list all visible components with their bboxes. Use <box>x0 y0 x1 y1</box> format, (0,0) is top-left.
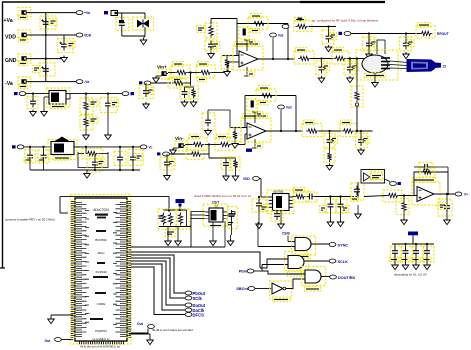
resistor R5 <box>196 62 215 82</box>
wire eeprom right <box>227 212 235 216</box>
resistor R9 feedback <box>248 14 268 33</box>
wire bus gate feed <box>131 252 260 268</box>
ic U1 center label 4 <box>95 270 107 274</box>
port -VA out <box>76 80 89 85</box>
and gate G2 <box>285 252 309 277</box>
port RF out <box>437 32 450 36</box>
port IN- cal <box>157 152 169 156</box>
port SCLK <box>329 259 348 264</box>
wire decoupling rail <box>392 235 434 245</box>
ground adc <box>278 222 285 229</box>
ground C39 <box>424 257 431 270</box>
wire eeprom feed <box>131 221 225 247</box>
capacitor C29 under adc <box>271 210 283 221</box>
capacitor C32 <box>336 197 349 214</box>
ic U1 center label 4b <box>93 262 108 278</box>
svg-text:-Va: -Va <box>5 81 13 87</box>
wire bus SClk <box>131 258 185 298</box>
resistor R16 <box>78 147 108 159</box>
ground U1 bottom right <box>147 338 154 345</box>
net label -Va <box>5 81 13 87</box>
tvs diode D1 <box>133 13 154 30</box>
wire out2 a <box>319 130 341 132</box>
capacitor C20 <box>128 147 143 170</box>
port Out bottom <box>45 338 74 344</box>
wire adc gnd <box>280 211 282 223</box>
resistor R33 fb <box>419 168 435 177</box>
regulator U3 <box>47 88 71 109</box>
resistor R4 <box>171 62 190 82</box>
capacitor C3 10u <box>32 63 55 76</box>
net label VDD (pullups) <box>176 199 185 206</box>
ground C28 <box>256 210 263 229</box>
ic U1 left pins <box>71 201 75 338</box>
wire gate1 in <box>258 222 295 247</box>
wire filter top rail <box>118 12 146 14</box>
capacitor C34 fb <box>414 163 448 173</box>
wire out1 b <box>347 57 372 59</box>
ic U1 center label 3 <box>98 251 105 255</box>
wire pullup bottom rail <box>159 226 191 228</box>
wire pullup rail <box>164 207 187 212</box>
ground C37 <box>402 257 409 270</box>
annotation eeprom <box>194 194 251 198</box>
wire reg1 in <box>26 93 49 95</box>
ground filter <box>140 36 147 45</box>
wire gate2 in <box>260 259 288 271</box>
wire U2 power dn <box>244 67 255 76</box>
wire U5 out <box>266 130 303 132</box>
net label CS/T <box>212 201 219 214</box>
resistor R23 out <box>302 120 322 136</box>
port VA out <box>76 11 90 16</box>
capacitor C18 <box>87 154 105 173</box>
port IN+ cal <box>139 81 151 85</box>
resistor R10 out <box>294 48 314 64</box>
wire nodeB split <box>209 157 236 159</box>
resistor R29 <box>165 230 175 237</box>
annotation RF text <box>312 19 378 23</box>
capacitor C8 feedback <box>239 27 249 39</box>
resistor R13 <box>416 23 435 38</box>
ground C22 <box>223 169 230 181</box>
ic U1 highlight box <box>71 195 132 345</box>
svg-text:Out: Out <box>45 339 52 343</box>
wire U2 feedback right <box>287 24 289 60</box>
sheet border section tick <box>0 267 5 269</box>
wire reg2 out <box>77 146 140 148</box>
ground R21 <box>232 142 239 149</box>
svg-text:Out: Out <box>137 322 144 326</box>
net label Vin- <box>175 136 184 141</box>
port DaClk <box>185 308 205 313</box>
wire RF a <box>309 25 336 27</box>
svg-text:ADuC7024: ADuC7024 <box>93 208 109 212</box>
capacitor C11 <box>322 27 337 45</box>
svg-text:MCU: MCU <box>98 251 105 255</box>
port PbIn <box>239 269 262 274</box>
wire nodeA split <box>185 86 194 88</box>
wire U1 left gnd <box>51 315 73 317</box>
wire GND rail <box>26 58 64 60</box>
capacitor C7 <box>180 86 189 99</box>
net label VDD small <box>298 18 303 21</box>
capacitor C38 <box>411 244 423 262</box>
capacitor C21 <box>160 154 175 170</box>
and gate G1 <box>292 236 316 259</box>
ic U1 bottom label <box>92 337 110 341</box>
inverter G4 <box>270 281 292 302</box>
wire U5 feedback right <box>295 96 297 132</box>
and gate G3 <box>302 267 326 292</box>
net label VDD <box>5 35 16 41</box>
wire C40 top <box>208 110 230 128</box>
port reg2 in <box>12 145 24 149</box>
svg-text:Vo2: Vo2 <box>286 106 292 110</box>
wire U2 feedback left <box>236 24 238 56</box>
wire RF b <box>351 32 420 34</box>
resistor R32 vert <box>396 196 409 215</box>
svg-text:SClk: SClk <box>193 296 203 301</box>
resistor R14 <box>80 98 98 114</box>
resistor R3 <box>196 23 217 38</box>
svg-text:-Va: -Va <box>84 80 89 84</box>
wire T1 outputs <box>390 61 408 69</box>
capacitor C28 <box>252 196 268 212</box>
resistor R17 <box>188 134 207 150</box>
capacitor C5 <box>205 40 220 51</box>
svg-text:VDD: VDD <box>5 35 16 41</box>
connector J3 (GND) <box>18 54 31 66</box>
resistor R8 to gnd <box>221 56 233 69</box>
ground C38 <box>413 257 420 270</box>
wire gate1 out <box>311 243 329 245</box>
svg-text:PbIn: PbIn <box>239 270 248 274</box>
ic U1 right pin names <box>115 202 123 338</box>
transformer T1 <box>356 40 398 80</box>
svg-text:(connect to stable RFD + on 30: (connect to stable RFD + on 30.2 KHz) <box>5 218 55 222</box>
wire U9 out <box>434 193 455 195</box>
port SClk <box>185 296 202 301</box>
resistor R28 pullup <box>177 209 191 229</box>
svg-text:SYNC: SYNC <box>338 243 349 247</box>
wire pullups dn <box>168 227 178 240</box>
ground R32 <box>401 213 408 225</box>
wire U2 feedback top <box>237 23 288 25</box>
ground eeprom <box>210 222 217 246</box>
wire bus DaClk <box>131 264 185 310</box>
resistor R6 shunt <box>168 78 186 88</box>
net label Vin+ <box>157 65 167 70</box>
svg-text:Vin-: Vin- <box>175 136 184 141</box>
ic U1 pin highlights left <box>73 200 75 338</box>
wire cal in- <box>170 153 193 155</box>
ground J5 shell <box>153 76 162 83</box>
wire reg1 out <box>70 93 122 100</box>
wire U1 right bottom gnd <box>129 334 150 338</box>
port U5 out tap <box>278 105 292 110</box>
reference U8 box <box>361 170 385 184</box>
ic U1 center label 5 <box>97 302 106 306</box>
net label +Va <box>4 18 13 24</box>
port Out mid <box>131 322 154 333</box>
port reg1 out <box>122 92 134 96</box>
ground R15 <box>83 133 90 140</box>
wire R14-R15 <box>85 94 87 133</box>
svg-text:RFOUT: RFOUT <box>437 32 450 36</box>
ground C9 <box>318 76 325 83</box>
wire U3 gnd pin <box>44 97 47 110</box>
wire eeprom left bus <box>191 212 205 248</box>
ground R20 <box>232 170 239 181</box>
capacitor C2 10u <box>58 35 76 53</box>
resistor R26 vert <box>351 59 363 108</box>
annotation out note <box>152 328 193 332</box>
svg-text:VDD: VDD <box>243 177 250 181</box>
svg-text:J2: J2 <box>443 65 447 69</box>
port RF in <box>282 25 289 29</box>
ic U1 center label 1b <box>95 214 108 219</box>
wire adc rail <box>315 195 359 197</box>
ic U1 center label 1 <box>93 208 109 212</box>
port VDD in (filter) <box>104 11 118 16</box>
port PbOut <box>185 291 206 296</box>
ic U1 center label 2 <box>95 238 107 242</box>
op-amp U9 <box>412 178 440 205</box>
ground C10 <box>347 76 354 83</box>
wire ref buf drop <box>357 182 359 197</box>
wire VDD to pullups <box>60 196 169 212</box>
svg-text:CORE: CORE <box>97 302 106 306</box>
resistor R7 <box>190 86 199 99</box>
resistor R24 below <box>324 146 335 163</box>
ground R24 <box>326 164 333 171</box>
ground C7 <box>181 100 188 107</box>
annotation note <box>5 218 55 222</box>
wire Vin- conn to R17 <box>183 145 192 146</box>
wire VDD rail <box>26 34 76 36</box>
wire to opamp1 <box>212 62 239 73</box>
wire U5 feedback top <box>245 95 296 97</box>
op-amp U5 <box>241 114 271 142</box>
connector J4 (-Va) <box>18 77 31 89</box>
capacitor C36 <box>389 244 401 262</box>
capacitor C24 <box>324 131 338 148</box>
wire eeprom cs <box>131 251 192 253</box>
svg-text:+Va: +Va <box>84 11 90 15</box>
ic U1 caption <box>80 345 120 349</box>
ic U1 pin highlights right <box>126 200 128 338</box>
ground C32 <box>337 211 344 227</box>
port SBCnt <box>236 287 271 292</box>
capacitor C35 <box>438 194 452 216</box>
capacitor C40 u5 filter <box>202 110 215 130</box>
wire U9 feedback <box>414 172 448 196</box>
capacitor C12 <box>363 34 378 52</box>
ground C40 <box>205 129 212 136</box>
ic U1 center label 6 <box>95 329 107 333</box>
svg-text:Vo1: Vo1 <box>278 34 284 38</box>
svg-text:VDD: VDD <box>84 34 92 38</box>
wire vertical bus x46 <box>45 13 47 82</box>
ground U3 <box>41 110 48 117</box>
ic U1 left pin names <box>79 202 87 338</box>
port ADC drive <box>455 192 468 197</box>
wire to xfmr <box>356 57 358 132</box>
svg-text:SCLK: SCLK <box>338 260 349 264</box>
ground J6 shell <box>170 148 179 155</box>
capacitor C23 feedback <box>247 99 257 111</box>
ground C26 <box>227 220 234 246</box>
capacitor C14 <box>27 94 38 109</box>
ic U1 right pins <box>127 201 131 338</box>
ground reg2 <box>84 170 91 178</box>
connector J6 Vin- <box>175 141 187 151</box>
resistor R31 <box>358 190 402 202</box>
wire gate3 out <box>321 276 331 278</box>
wire reg2 in <box>24 146 50 148</box>
capacitor C1 10u <box>40 16 57 29</box>
svg-text:CS/B: CS/B <box>282 232 290 236</box>
capacitor C22 <box>221 157 230 170</box>
svg-text:GND: GND <box>5 58 17 64</box>
wire nodeB <box>205 143 219 145</box>
resistor R25 <box>340 120 357 136</box>
ground C35 <box>444 212 451 225</box>
net label GND <box>5 58 17 64</box>
net label VDD decoupling <box>408 232 418 236</box>
svg-text:SBCnt: SBCnt <box>236 287 248 291</box>
ground C21 <box>164 169 171 181</box>
resistor R18 <box>215 134 234 150</box>
resistor R20 <box>231 157 240 170</box>
wire out2 b <box>355 130 373 132</box>
capacitor C9 <box>316 59 330 76</box>
sheet border top edge <box>2 1 385 3</box>
capacitor C10 <box>344 59 358 76</box>
wire reg2 bottom rail <box>30 162 140 172</box>
connector P1 (RF jack) <box>407 60 446 72</box>
resistor R19 shunt <box>186 150 204 160</box>
capacitor C15 <box>100 94 119 113</box>
wire opamp2 inverting network <box>230 128 247 131</box>
ground C11 <box>325 45 332 52</box>
wire U2 port tap <box>272 38 274 59</box>
wire vdd adc drop <box>260 179 271 198</box>
capacitor C30 series <box>306 192 317 202</box>
ground C25 <box>358 148 365 155</box>
ground C31 <box>327 211 334 227</box>
wire bus DaOut <box>131 261 185 305</box>
eeprom U6 <box>203 204 228 226</box>
svg-text:Used if 9600 (2k/4k) out is in: Used if 9600 (2k/4k) out is in 50 bit 3 … <box>194 194 251 198</box>
capacitor C31 <box>319 197 336 214</box>
wire U2 out <box>258 58 295 60</box>
ic U1 bottom pins <box>79 341 124 344</box>
ground C6 <box>143 102 150 109</box>
port DaOut <box>185 303 206 308</box>
regulator U4 <box>48 137 80 161</box>
wire nodeA drop <box>185 73 191 88</box>
sheet border left edge <box>2 2 4 268</box>
wire cal in <box>151 82 171 84</box>
wire gate3 in a <box>262 271 305 274</box>
connector J5 Vin+ <box>158 69 170 79</box>
wire note bracket <box>60 196 68 213</box>
svg-text:BCPZ62: BCPZ62 <box>95 238 107 242</box>
port U2 out tap <box>270 33 284 38</box>
wire inv out <box>286 279 305 289</box>
wire nodeB drop <box>203 145 210 159</box>
ic U1 body <box>75 198 127 341</box>
capacitor C17 <box>37 147 49 163</box>
capacitor C13 <box>400 34 415 52</box>
wire C15 dn <box>107 110 109 134</box>
resistor R27 pullup <box>158 209 176 229</box>
wire Vin+ conn to R4 <box>166 73 175 74</box>
wire ref top <box>211 19 237 25</box>
ground C33 <box>355 205 362 219</box>
port VDD out <box>76 33 92 38</box>
resistor R22 feedback <box>256 86 276 105</box>
connector J1 (+Va) <box>18 8 31 20</box>
port DFCS <box>185 312 204 317</box>
port SYNC <box>329 243 348 248</box>
port VDD adc <box>243 177 259 182</box>
connector J2 (VDD) <box>18 30 31 42</box>
svg-text:XC2S30: XC2S30 <box>95 270 107 274</box>
port DOUT/RD <box>330 275 356 280</box>
svg-text:PQFP64: PQFP64 <box>95 329 107 333</box>
svg-text:40-48 is out if relays are low: 40-48 is out if relays are low filed <box>152 328 193 332</box>
ground R7 <box>190 100 197 107</box>
wire U2 power up <box>244 40 255 51</box>
svg-text:AD7683: AD7683 <box>273 190 284 194</box>
wire reg2 fb box <box>78 152 108 168</box>
wire to opamp2 <box>232 134 247 145</box>
capacitor C6 <box>139 83 154 99</box>
wire +Va rail <box>26 12 76 14</box>
ground C36 <box>392 257 399 270</box>
wire filter bottom rail <box>122 27 145 36</box>
resistor R11 <box>332 48 349 64</box>
resistor R12 <box>294 17 312 31</box>
ic U1 center label 2b <box>96 230 106 232</box>
capacitor C19 <box>114 147 126 170</box>
ground below C2 <box>61 56 68 63</box>
wire U5 feedback left <box>244 96 246 128</box>
wire opamp1 inverting network <box>222 56 239 59</box>
wire bus PbOut <box>131 255 185 293</box>
op-amp U2 <box>233 42 263 70</box>
svg-text:V+: V+ <box>464 193 468 197</box>
ground C14 <box>30 110 37 117</box>
ground U1 left <box>48 317 55 324</box>
wire R31 in <box>364 196 387 197</box>
ground C12 <box>366 52 373 59</box>
wire nodeA <box>188 71 199 73</box>
ground pullup a <box>165 239 172 246</box>
wire R31 out <box>400 194 418 196</box>
capacitor C16 <box>24 147 36 163</box>
capacitor C37 <box>400 244 412 262</box>
net label CS/B <box>282 232 290 242</box>
wire out1 a <box>311 57 333 59</box>
resistor R21 to gnd <box>229 128 241 141</box>
capacitor C26 <box>228 207 238 229</box>
resistor R15 <box>80 115 98 130</box>
wire gate2 out <box>304 260 329 262</box>
